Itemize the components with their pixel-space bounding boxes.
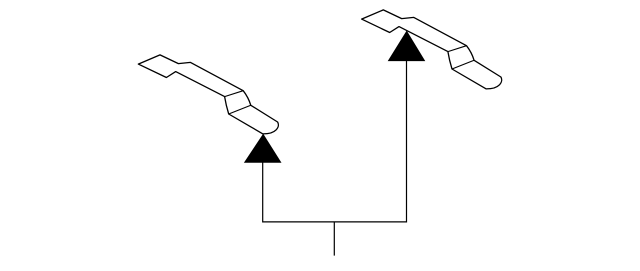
arrow left xyxy=(245,135,281,163)
center drop line xyxy=(333,222,335,256)
leader bracket lines xyxy=(263,60,407,222)
arrow right xyxy=(389,32,425,61)
clip part left xyxy=(138,55,278,134)
clip part right xyxy=(362,10,502,89)
